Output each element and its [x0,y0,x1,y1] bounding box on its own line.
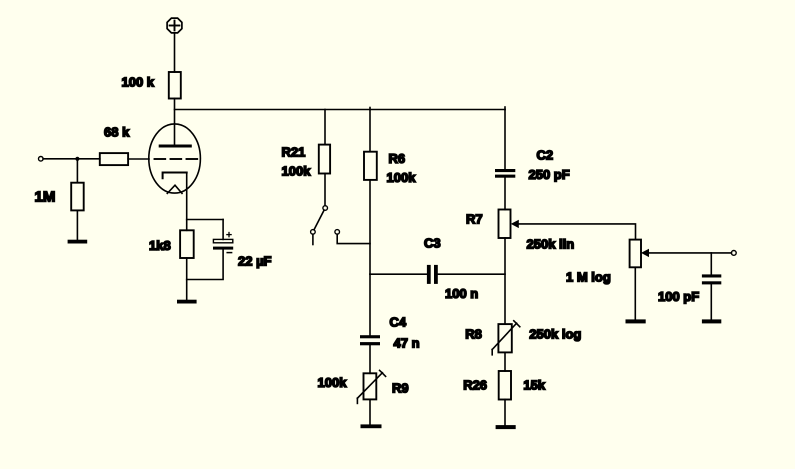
tube base triangle [167,185,182,193]
tube grid (dashed) [155,158,198,160]
polarity - mark [227,252,231,254]
svg-text:15k: 15k [523,378,545,393]
wire 1M pot wiper to right terminal [649,252,731,254]
svg-text:C4: C4 [390,315,407,330]
switch left contact [311,230,316,235]
trimmer R9 [357,370,385,403]
potentiometer 1 M log [630,240,641,268]
wire supply to R 100k [174,33,176,72]
svg-text:250k lin: 250k lin [527,237,575,252]
svg-text:250 pF: 250 pF [529,167,570,182]
ground (1M pot) [626,319,646,323]
svg-text:1M: 1M [35,189,56,206]
wire switch right contact to R6 net [337,234,370,243]
potentiometer R7 [499,210,511,239]
switch left contact stub [312,234,314,244]
ground (R9) [361,424,382,428]
wire 1M to ground [76,210,78,239]
svg-text:100 pF: 100 pF [658,289,699,304]
svg-text:100 n: 100 n [445,286,478,301]
wire R21 to switch [324,174,326,206]
wire 68k to grid [128,158,149,160]
wire 1M pot to ground [634,267,636,319]
resistor R21 [319,145,330,174]
wire R 100k to anode bus junction [174,99,176,146]
junction stub at C2 corner [504,107,506,110]
wire C4 to R9 [369,345,371,373]
wire C 22uF bottom [187,250,223,280]
wire terminal net to 100 pF [710,253,712,275]
polarity + mark [227,233,231,237]
wire bus to R6 [369,110,371,152]
switch S1 pole contact [323,206,328,211]
svg-text:22 µF: 22 µF [238,254,272,269]
trimmer R8 [492,321,520,355]
resistor 1k8 [180,230,194,258]
wire R26 to ground [504,400,506,426]
tube cathode [163,173,187,179]
svg-text:100k: 100k [387,170,417,185]
resistor R6 [364,152,377,180]
wire R8 to R26 [504,352,506,371]
wire main bus [175,109,506,111]
capacitor 100 pF [702,274,721,284]
wire input to 68k [43,158,100,160]
svg-text:250k log: 250k log [529,326,581,341]
input terminal [39,157,44,162]
capacitor 22 uF (electrolytic, + plate hollow) [213,239,232,242]
wire cathode down [186,173,188,231]
resistor 100 k (plate load) [169,72,181,99]
wire bus to R21 [324,110,326,145]
capacitor C4 [360,335,380,345]
ground (R26) [496,425,516,429]
svg-text:R21: R21 [282,145,306,160]
wire R9 to ground [369,399,371,424]
svg-text:R9: R9 [392,381,409,396]
wire 1k8 to ground [186,258,188,300]
svg-text:R7: R7 [466,212,483,227]
right terminal [731,251,736,256]
svg-text:C3: C3 [424,236,441,251]
wire to C 22uF top [222,220,224,240]
wire cathode junction to C 22uF [187,219,223,221]
svg-text:100k: 100k [318,375,348,390]
wire R6 down to C3 node [369,180,371,274]
R7 wiper arrow [511,220,519,228]
svg-text:100 k: 100 k [122,75,155,90]
junction stub at R6 [369,108,371,110]
wire node to C3 [370,273,427,275]
junction node input/1M [75,157,79,161]
wire 100 pF to ground [710,284,712,319]
switch lever [314,210,324,230]
power supply terminal + [167,18,182,33]
ground (100 pF) [702,319,721,323]
tube U1 envelope [149,124,201,193]
capacitor C3 [427,265,438,284]
resistor 1M [71,183,84,211]
wire C2 to R7 [504,178,506,210]
svg-text:R6: R6 [389,151,406,166]
ground (cathode) [177,300,197,304]
capacitor C2 [495,169,515,178]
switch right contact [335,230,340,235]
wire C3 to R7 column [438,273,505,275]
svg-text:1k8: 1k8 [149,238,171,253]
svg-text:R26: R26 [463,378,487,393]
svg-text:100k: 100k [282,164,312,179]
svg-text:68 k: 68 k [104,125,130,140]
svg-text:R8: R8 [465,326,482,341]
wire node to C4 [369,274,371,335]
ground (input) [68,240,88,244]
svg-text:47 n: 47 n [394,335,420,350]
tube anode [160,145,190,148]
svg-text:1 M log: 1 M log [566,270,611,285]
wire R7 down through C3 node to R8 [504,238,506,324]
wire R7 wiper to 1M pot [519,224,636,240]
1M pot wiper arrow [641,249,649,257]
wire bus corner down to C2 [504,110,506,170]
resistor R26 [499,371,511,400]
resistor 68 k [100,153,128,165]
wire junction to 1M [76,159,78,183]
svg-text:C2: C2 [537,148,554,163]
